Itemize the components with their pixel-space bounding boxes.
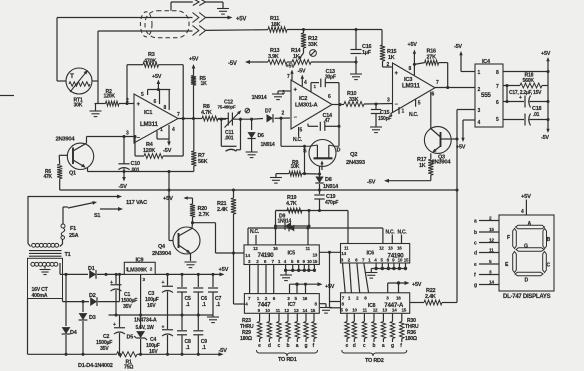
- svg-text:1µF: 1µF: [362, 50, 372, 56]
- svg-text:N.C.: N.C.: [250, 229, 260, 235]
- svg-text:12: 12: [489, 238, 494, 244]
- svg-text:14: 14: [303, 308, 308, 313]
- svg-text:15: 15: [489, 227, 494, 233]
- svg-text:+: +: [113, 322, 116, 328]
- svg-text:1K: 1K: [293, 54, 300, 60]
- svg-text:10: 10: [307, 259, 312, 264]
- svg-text:16: 16: [273, 246, 278, 251]
- svg-text:b: b: [474, 230, 477, 236]
- svg-text:T: T: [70, 73, 74, 80]
- svg-text:11: 11: [489, 248, 494, 254]
- svg-text:555: 555: [481, 92, 491, 99]
- svg-text:LM311: LM311: [402, 83, 420, 90]
- svg-text:Q1: Q1: [69, 171, 76, 177]
- svg-text:F1: F1: [70, 226, 76, 232]
- svg-text:D3: D3: [89, 315, 96, 321]
- svg-text:b: b: [287, 343, 290, 349]
- svg-text:S1: S1: [94, 213, 100, 219]
- svg-text:1N914: 1N914: [252, 95, 268, 101]
- svg-text:470K: 470K: [144, 59, 156, 65]
- svg-text:D8: D8: [325, 177, 332, 183]
- svg-text:Q2: Q2: [350, 152, 357, 158]
- svg-text:C17, 2.2µF, 15V: C17, 2.2µF, 15V: [509, 90, 542, 96]
- svg-text:+5V: +5V: [189, 57, 199, 63]
- svg-text:47K: 47K: [44, 174, 53, 180]
- svg-text:LM311: LM311: [140, 121, 158, 128]
- svg-text:18K: 18K: [271, 22, 281, 28]
- svg-text:180Ω: 180Ω: [405, 336, 417, 342]
- svg-text:C: C: [547, 263, 551, 269]
- svg-text:D: D: [525, 278, 529, 284]
- svg-text:d: d: [353, 343, 356, 349]
- svg-text:13: 13: [382, 308, 387, 313]
- svg-text:-5V: -5V: [219, 348, 228, 354]
- svg-text:14: 14: [489, 280, 494, 286]
- svg-text:S: S: [303, 149, 307, 155]
- svg-text:11: 11: [306, 246, 311, 251]
- svg-text:14: 14: [245, 253, 250, 258]
- svg-text:11: 11: [344, 245, 349, 250]
- svg-text:+: +: [162, 325, 165, 331]
- svg-text:12: 12: [284, 308, 289, 313]
- svg-text:DL-747 DISPLAYS: DL-747 DISPLAYS: [503, 294, 551, 300]
- svg-text:4.7K: 4.7K: [201, 110, 212, 116]
- svg-text:13: 13: [294, 308, 299, 313]
- svg-text:G: G: [524, 244, 528, 250]
- svg-text:117 VAC: 117 VAC: [126, 200, 148, 206]
- svg-text:2N3904: 2N3904: [152, 251, 172, 257]
- svg-text:11: 11: [276, 308, 281, 313]
- svg-text:+: +: [110, 280, 113, 286]
- svg-text:IC6: IC6: [367, 250, 375, 256]
- svg-text:.1: .1: [202, 345, 206, 351]
- svg-text:d: d: [474, 251, 477, 257]
- svg-text:+5V: +5V: [236, 17, 246, 23]
- svg-text:+5V: +5V: [325, 284, 335, 290]
- svg-text:4.7K: 4.7K: [286, 201, 297, 207]
- svg-text:D: D: [337, 148, 341, 154]
- svg-text:-5V: -5V: [163, 148, 172, 154]
- svg-text:560K: 560K: [523, 78, 535, 84]
- svg-text:15: 15: [404, 258, 409, 263]
- svg-text:16: 16: [397, 245, 402, 250]
- svg-text:-5V: -5V: [367, 180, 376, 186]
- svg-text:N.C.: N.C.: [293, 137, 303, 143]
- svg-text:33K: 33K: [349, 97, 359, 103]
- svg-text:b: b: [373, 343, 376, 349]
- svg-text:R3: R3: [148, 52, 155, 58]
- svg-text:16: 16: [396, 295, 401, 300]
- svg-text:13: 13: [388, 245, 393, 250]
- svg-text:TO RD1: TO RD1: [278, 357, 297, 363]
- svg-text:2.7K: 2.7K: [199, 212, 210, 218]
- svg-text:+5V: +5V: [412, 282, 422, 288]
- svg-text:-5V: -5V: [541, 135, 549, 141]
- svg-text:D1: D1: [88, 266, 95, 272]
- svg-text:+: +: [162, 280, 165, 286]
- svg-text:LM301-A: LM301-A: [295, 103, 318, 109]
- svg-text:10K: 10K: [291, 164, 300, 170]
- svg-text:N.C.: N.C.: [398, 229, 408, 235]
- svg-text:12: 12: [253, 246, 258, 251]
- svg-text:1K: 1K: [419, 163, 426, 169]
- svg-text:d: d: [268, 343, 271, 349]
- svg-text:+5V: +5V: [521, 194, 531, 200]
- svg-text:+5V: +5V: [219, 267, 229, 273]
- svg-text:+5V: +5V: [152, 74, 162, 80]
- svg-text:120K: 120K: [104, 94, 116, 100]
- svg-text:56K: 56K: [198, 159, 208, 165]
- svg-text:g: g: [305, 343, 308, 349]
- svg-text:12: 12: [373, 308, 378, 313]
- svg-text:75Ω: 75Ω: [124, 365, 133, 371]
- svg-text:-5V: -5V: [228, 61, 237, 67]
- svg-text:1N4734-A: 1N4734-A: [134, 318, 157, 324]
- svg-text:D5: D5: [127, 335, 134, 341]
- svg-text:14: 14: [341, 251, 346, 256]
- svg-text:12: 12: [379, 245, 384, 250]
- svg-text:180Ω: 180Ω: [240, 336, 252, 342]
- svg-text:10: 10: [398, 258, 403, 263]
- svg-text:5.6V, 1W: 5.6V, 1W: [136, 325, 155, 331]
- svg-text:2.4K: 2.4K: [217, 207, 228, 213]
- svg-text:1N914: 1N914: [261, 142, 275, 148]
- svg-text:.001: .001: [225, 135, 234, 141]
- svg-text:+5V: +5V: [456, 145, 466, 151]
- svg-text:IC9: IC9: [136, 258, 144, 264]
- svg-text:120K: 120K: [143, 148, 155, 154]
- svg-text:74190: 74190: [258, 252, 275, 259]
- svg-text:14: 14: [392, 308, 397, 313]
- svg-text:2N3904: 2N3904: [432, 160, 452, 166]
- svg-text:16V: 16V: [147, 303, 156, 309]
- svg-text:IC4: IC4: [482, 59, 491, 65]
- svg-text:16: 16: [303, 296, 308, 301]
- svg-text:.1: .1: [186, 345, 190, 351]
- svg-text:2N3904: 2N3904: [56, 137, 76, 143]
- svg-text:.1: .1: [216, 302, 220, 308]
- svg-text:TO RD2: TO RD2: [365, 358, 384, 364]
- svg-text:IC5: IC5: [288, 251, 296, 257]
- svg-text:B: B: [547, 237, 551, 243]
- svg-text:F: F: [507, 235, 510, 241]
- svg-text:g: g: [391, 343, 394, 349]
- svg-text:2.4K: 2.4K: [425, 294, 436, 300]
- svg-text:10: 10: [265, 308, 270, 313]
- svg-text:33K: 33K: [308, 42, 318, 48]
- svg-text:1N914: 1N914: [278, 218, 292, 224]
- svg-text:A: A: [528, 221, 532, 227]
- svg-text:+5V: +5V: [408, 42, 418, 48]
- svg-text:2N4393: 2N4393: [346, 160, 366, 166]
- svg-text:-5V: -5V: [298, 69, 306, 75]
- svg-text:N.C.: N.C.: [409, 112, 419, 118]
- svg-text:35V: 35V: [123, 304, 132, 310]
- svg-text:30K: 30K: [74, 102, 83, 108]
- svg-text:.01: .01: [533, 112, 540, 118]
- svg-text:D6: D6: [258, 133, 264, 139]
- svg-text:11: 11: [363, 308, 368, 313]
- svg-text:.47: .47: [324, 118, 331, 124]
- svg-text:75-480pF: 75-480pF: [218, 104, 236, 109]
- svg-text:15: 15: [311, 308, 316, 313]
- svg-text:15: 15: [402, 308, 407, 313]
- svg-text:13: 13: [313, 253, 318, 258]
- svg-text:10: 10: [352, 308, 357, 313]
- svg-text:+5V: +5V: [286, 64, 296, 70]
- svg-text:D2: D2: [89, 293, 96, 299]
- svg-text:25A: 25A: [69, 233, 79, 239]
- svg-text:.001: .001: [131, 168, 140, 174]
- svg-text:.1: .1: [202, 302, 206, 308]
- svg-text:15: 15: [313, 259, 318, 264]
- svg-text:T1: T1: [65, 252, 71, 258]
- svg-text:400mA: 400mA: [32, 293, 48, 299]
- svg-text:470pF: 470pF: [325, 200, 338, 206]
- svg-text:D7: D7: [265, 108, 271, 114]
- svg-text:g: g: [474, 283, 477, 289]
- svg-text:30pF: 30pF: [325, 75, 336, 81]
- svg-text:IC2: IC2: [299, 96, 307, 102]
- svg-text:C10: C10: [131, 161, 141, 167]
- svg-text:27K: 27K: [427, 54, 437, 60]
- svg-text:LM309K: LM309K: [127, 268, 147, 274]
- svg-text:3.9K: 3.9K: [268, 54, 279, 60]
- svg-text:1K: 1K: [201, 81, 208, 87]
- svg-text:-5V: -5V: [454, 44, 462, 50]
- svg-text:+5V: +5V: [541, 51, 551, 57]
- svg-text:.1: .1: [186, 302, 190, 308]
- svg-text:1K: 1K: [388, 55, 395, 61]
- svg-text:-5V: -5V: [119, 184, 128, 190]
- svg-text:IC1: IC1: [144, 110, 153, 116]
- svg-text:N.C.: N.C.: [386, 229, 396, 235]
- svg-text:1N914: 1N914: [323, 184, 339, 190]
- svg-text:D1-D4-1N4002: D1-D4-1N4002: [78, 363, 113, 369]
- svg-text:35V: 35V: [100, 346, 109, 352]
- svg-text:Q4: Q4: [158, 244, 166, 250]
- svg-text:+5V: +5V: [163, 196, 173, 202]
